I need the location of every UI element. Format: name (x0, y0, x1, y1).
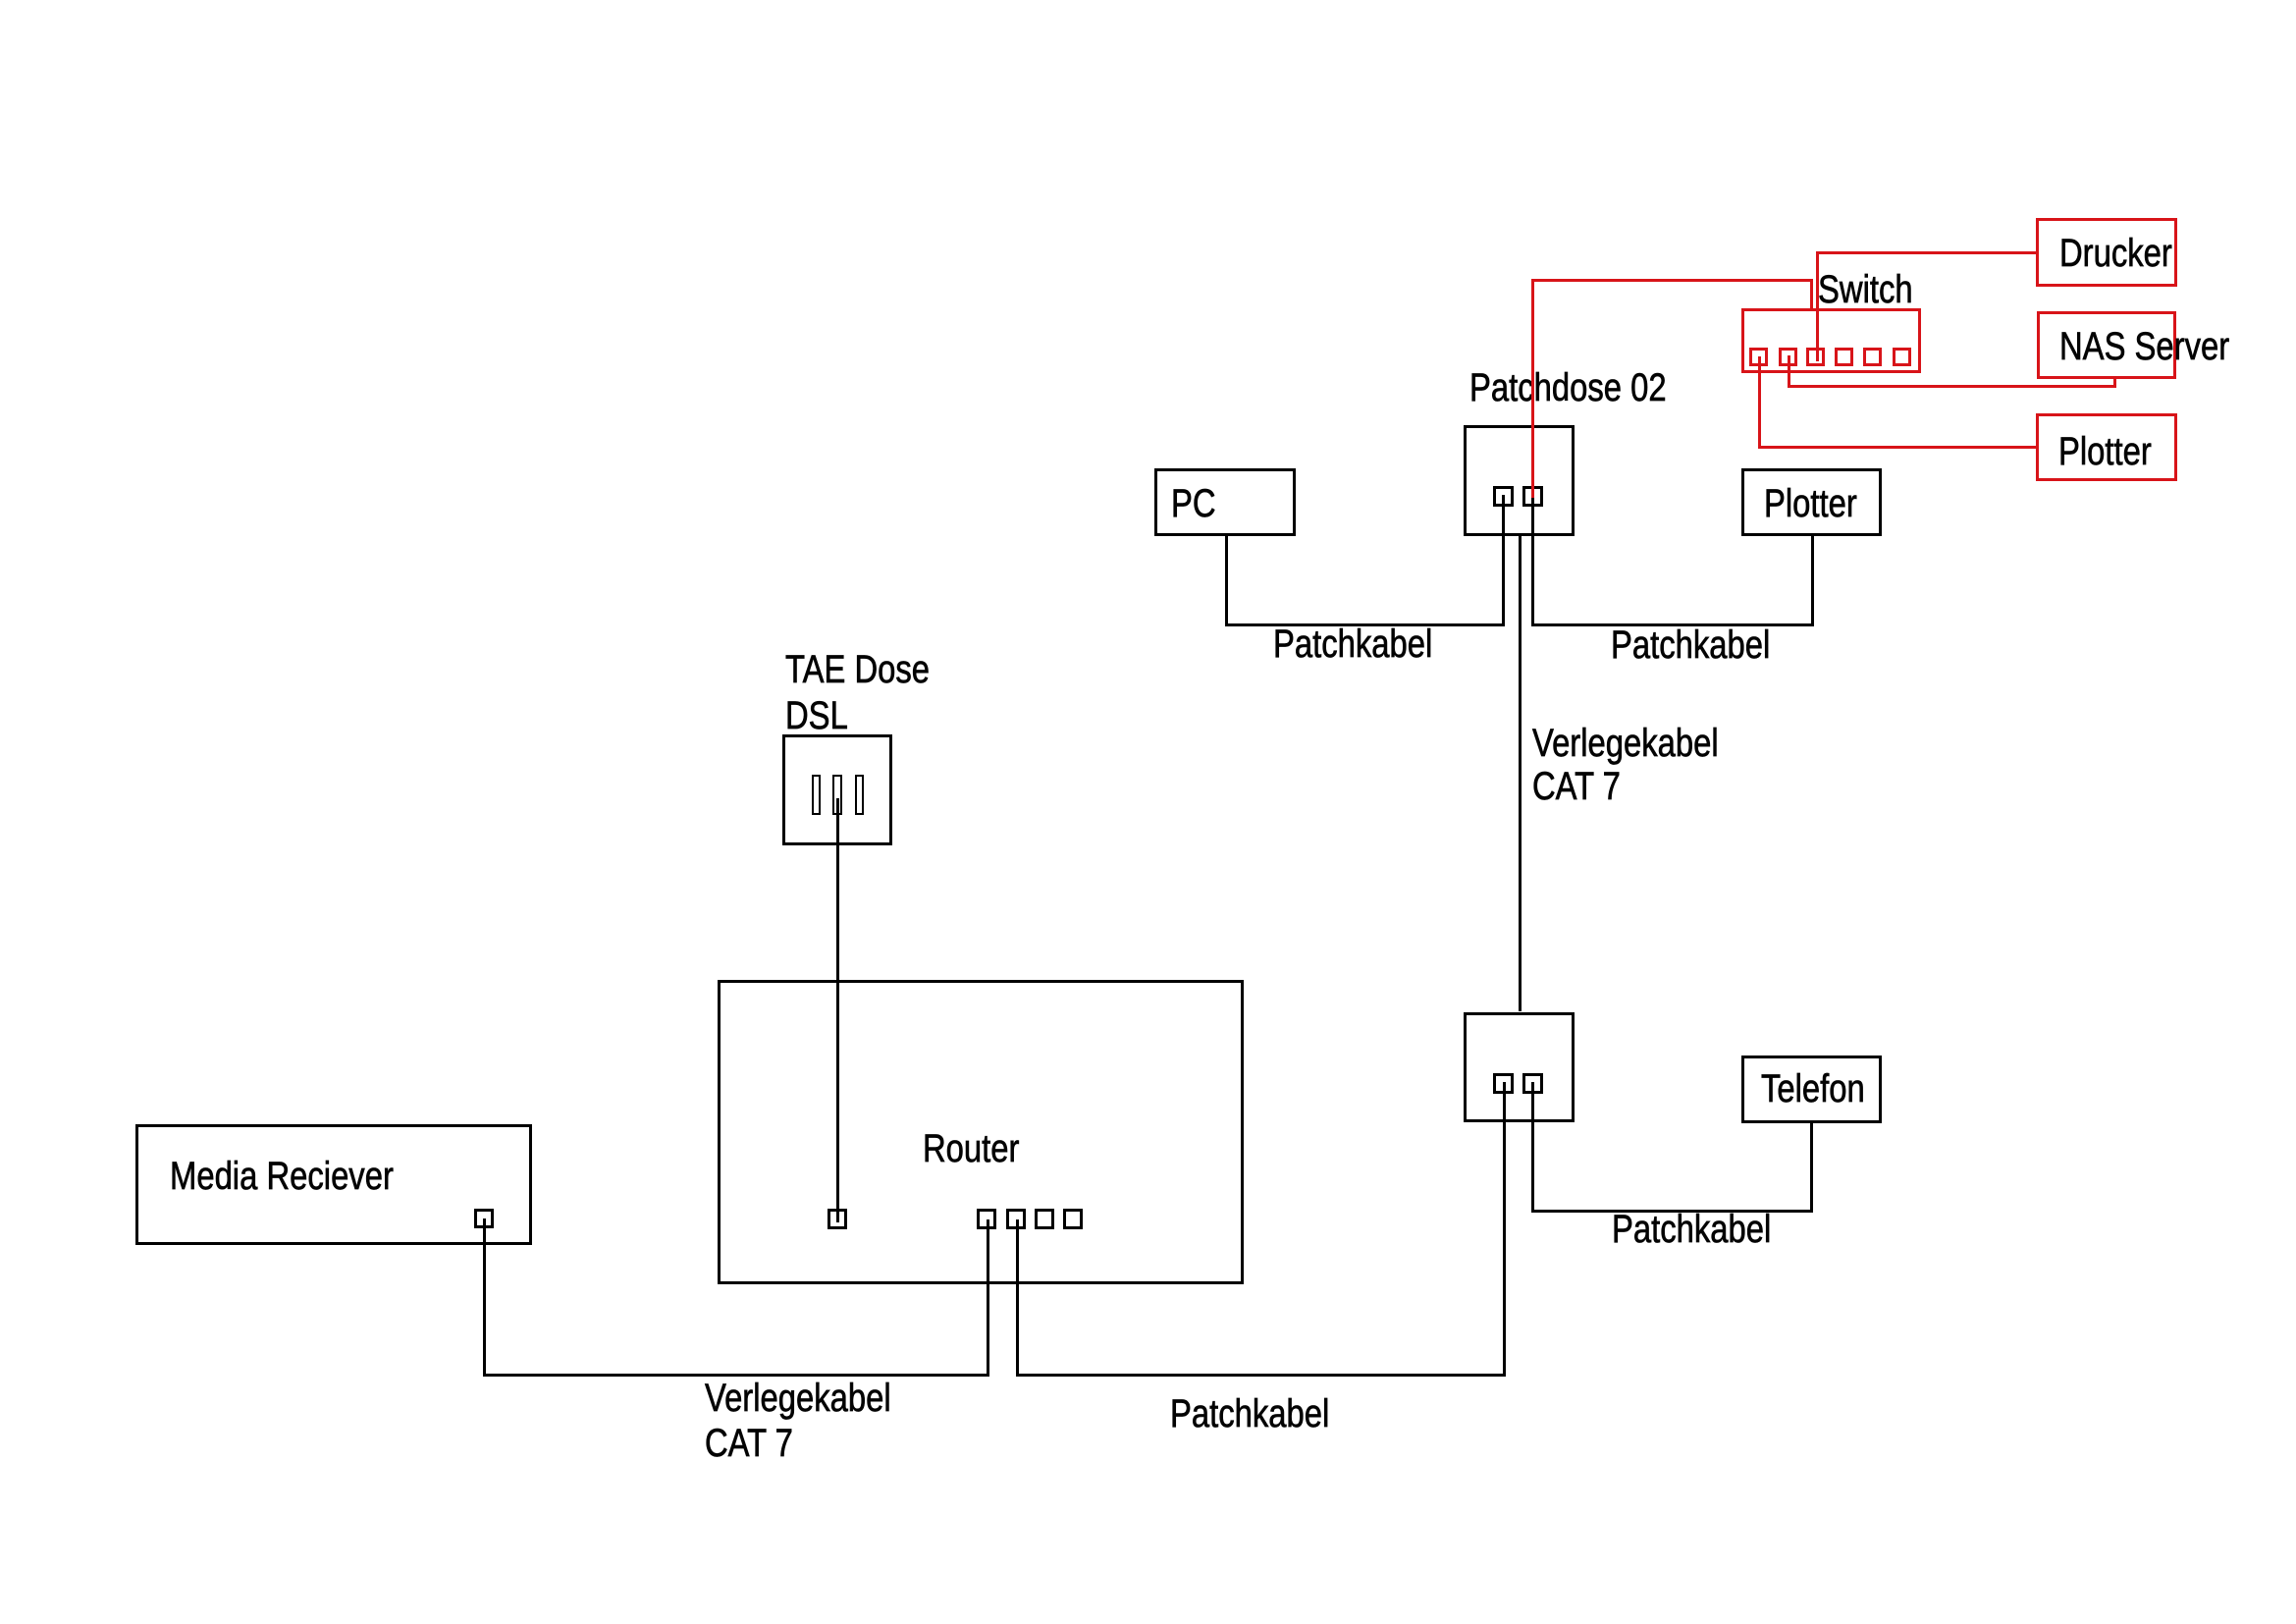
port Switch 3 (1806, 348, 1825, 366)
box Plotter (black) (1741, 468, 1882, 536)
box TAE Dose DSL (782, 734, 892, 845)
port Patchdose 01 left (1493, 1073, 1514, 1094)
box Telefon (1741, 1056, 1882, 1123)
label DSL (785, 696, 848, 735)
label NAS Server (2059, 327, 2229, 366)
wire Verlegekabel CAT 7 Patchdose 02 to Patchdose 01 (1519, 534, 1522, 1011)
port Switch 5 (1863, 348, 1882, 366)
port Patchdose 01 right (1522, 1073, 1543, 1094)
port Switch 2 (1779, 348, 1797, 366)
port Router LAN3 (1035, 1209, 1054, 1229)
wire TAE Dose to Router (DSL) (836, 798, 839, 1222)
box PC (1154, 468, 1296, 536)
wire Media Reciever to Router LAN1 (Verlegekabel) (0, 0, 2296, 1)
label CAT 7 (mid) (1532, 767, 1621, 806)
port Patchdose 02 right (1522, 486, 1543, 507)
wire Switch port 3 to Drucker (red) (0, 0, 2296, 1)
label Drucker (2059, 234, 2172, 273)
slot TAE 3 (855, 775, 864, 815)
label Plotter (red) (2058, 432, 2152, 471)
slot TAE 1 (812, 775, 821, 815)
label Patchkabel (Plotter) (1611, 625, 1770, 665)
port Router LAN1 (977, 1209, 996, 1229)
label Media Reciever (170, 1157, 394, 1196)
label TAE Dose (785, 650, 930, 689)
label PC (1171, 484, 1216, 523)
port Router LAN4 (1063, 1209, 1083, 1229)
label Patchkabel (Telefon) (1612, 1210, 1771, 1249)
wire PC to Patchdose 02 left port (Patchkabel) (0, 0, 2296, 1)
label Patchkabel (bottom) (1170, 1394, 1329, 1434)
box Patchdose 01 (lower) (1464, 1012, 1575, 1122)
wire Switch port 1 to Plotter (red) (0, 0, 2296, 1)
box Drucker (red) (2036, 218, 2177, 287)
wire Patchdose 01 right port to Telefon (Patchkabel) (0, 0, 2296, 1)
box NAS Server (red) (2037, 311, 2176, 379)
port Router LAN2 (1006, 1209, 1026, 1229)
label Telefon (1761, 1069, 1865, 1109)
slot TAE 2 (832, 775, 842, 815)
box Plotter (red) (2036, 413, 2177, 481)
wire Patchdose 02 right port to Switch (red) (0, 0, 2296, 1)
label Verlegekabel (bottom) (705, 1379, 891, 1418)
label Verlegekabel (mid) (1532, 724, 1719, 763)
label Router (923, 1129, 1019, 1168)
port Switch 1 (1749, 348, 1768, 366)
box Patchdose 02 (1464, 425, 1575, 536)
wire Switch port 2 to NAS Server (red) (0, 0, 2296, 1)
label Switch (1818, 270, 1913, 309)
box Switch (red) (1741, 308, 1921, 373)
port Switch 6 (1893, 348, 1911, 366)
wire Patchdose 02 right port to Plotter (Patchkabel) (0, 0, 2296, 1)
box Media Reciever (135, 1124, 532, 1245)
wire Router LAN2 to Patchdose 01 left port (Patchkabel) (0, 0, 2296, 1)
port Media Reciever (474, 1209, 494, 1228)
box Router (718, 980, 1244, 1284)
label Patchdose 02 (1469, 368, 1667, 407)
label CAT 7 (bottom) (705, 1424, 793, 1463)
port Patchdose 02 left (1493, 486, 1514, 507)
label Plotter (black) (1764, 484, 1857, 523)
port Router DSL (828, 1209, 847, 1229)
port Switch 4 (1835, 348, 1853, 366)
label Patchkabel (PC) (1273, 624, 1432, 664)
